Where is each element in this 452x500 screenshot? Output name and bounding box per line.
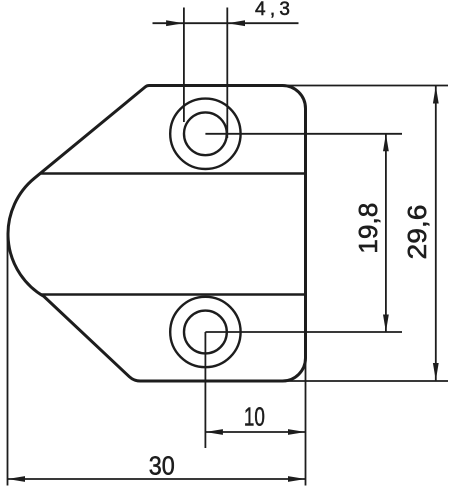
left extension line bbox=[7, 233, 9, 486]
arrowhead 19.8 top bbox=[383, 134, 389, 152]
right edge extension line down bbox=[305, 360, 307, 486]
bottom hole outer circle bbox=[170, 297, 240, 367]
top hole outer circle bbox=[170, 99, 240, 169]
30 dimension line bbox=[8, 478, 306, 480]
bottom hole inner circle bbox=[184, 311, 227, 354]
arrowhead 19.8 bottom bbox=[383, 315, 389, 333]
29.6 dimension line bbox=[435, 86, 437, 381]
top edge extension line bbox=[286, 85, 448, 87]
top hole inner circle bbox=[184, 112, 227, 155]
upper feature line bbox=[41, 172, 306, 175]
arrowhead 4.3 left bbox=[166, 20, 184, 26]
lower feature line bbox=[41, 293, 306, 296]
arrowhead 10 right bbox=[288, 429, 306, 435]
svg-text:4,3: 4,3 bbox=[255, 0, 290, 20]
19.8 dimension line bbox=[385, 134, 387, 332]
10 dimension line bbox=[205, 431, 305, 433]
extension line right of 4.3 bbox=[226, 8, 228, 139]
bottom hole vertical center line bbox=[204, 332, 206, 448]
top hole center line bbox=[205, 133, 402, 135]
bottom edge extension line bbox=[285, 380, 448, 382]
arrowhead 10 left bbox=[205, 429, 223, 435]
svg-text:29,6: 29,6 bbox=[402, 205, 432, 260]
svg-text:19,8: 19,8 bbox=[353, 203, 383, 254]
arrowhead 30 right bbox=[288, 476, 306, 482]
arrowhead 4.3 right bbox=[228, 20, 246, 26]
arrowhead 29.6 bottom bbox=[433, 363, 439, 381]
4.3 dimension line bbox=[153, 22, 299, 24]
bottom hole center line bbox=[205, 331, 402, 333]
arrowhead 30 left bbox=[8, 476, 26, 482]
svg-text:30: 30 bbox=[149, 450, 175, 480]
arrowhead 29.6 top bbox=[433, 86, 439, 104]
svg-text:10: 10 bbox=[244, 402, 265, 432]
part outline bbox=[8, 85, 305, 381]
extension line left of 4.3 bbox=[183, 8, 185, 123]
